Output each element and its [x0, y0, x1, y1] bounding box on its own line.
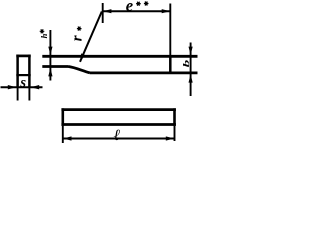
bottom view: bottom edge	[61, 123, 175, 126]
svg-text:b: b	[182, 60, 192, 68]
front view: left vertical extension line below	[17, 88, 19, 101]
arrowhead s left	[8, 85, 16, 89]
dimension line h	[49, 30, 51, 81]
side view: right end face	[169, 55, 172, 74]
dimension line b	[190, 43, 192, 97]
asterisk of h	[40, 29, 45, 33]
arrowhead e right	[162, 9, 171, 13]
side view: body bottom edge	[90, 72, 198, 75]
front view: right vertical extension line below	[28, 88, 30, 101]
bottom view: top edge	[61, 108, 175, 111]
svg-text:r: r	[69, 35, 85, 41]
dimension line e	[103, 10, 170, 12]
arrowhead l right	[166, 136, 175, 140]
arrowhead h up	[48, 68, 52, 77]
arrowhead e left	[103, 9, 112, 13]
front view: top edge	[16, 55, 30, 58]
leader line r	[80, 12, 102, 62]
arrowhead h down	[48, 47, 52, 55]
side view: top edge	[42, 55, 197, 58]
svg-text:ℓ: ℓ	[114, 127, 121, 144]
svg-text:e: e	[126, 0, 133, 15]
extension line e left	[102, 3, 104, 23]
bottom view: right end	[173, 108, 176, 126]
svg-text:s: s	[19, 75, 26, 91]
svg-text:h: h	[39, 33, 49, 38]
arrowhead l left	[63, 136, 72, 140]
arrowhead b down	[189, 47, 193, 55]
arrowhead s right	[31, 85, 40, 89]
arrowhead r	[80, 53, 85, 61]
arrowhead b up	[189, 74, 193, 82]
dimension line l	[63, 138, 175, 140]
front view: divider line	[16, 74, 30, 76]
extension line e right / above right end	[169, 4, 171, 57]
asterisk of r	[77, 27, 82, 31]
bottom view: left extension line	[62, 126, 64, 143]
asterisk 1 of e	[136, 2, 141, 6]
side view: head bottom edge	[42, 65, 68, 68]
asterisk 2 of e	[144, 2, 149, 6]
front view: right vertical of blade section	[28, 55, 31, 88]
dimension line s (bottom edge of front view)	[1, 86, 43, 88]
bottom view: left end	[61, 108, 64, 126]
bottom view: right extension line	[174, 126, 176, 141]
front view: left vertical of blade section	[16, 55, 19, 88]
side view: transition curve r	[69, 67, 91, 73]
